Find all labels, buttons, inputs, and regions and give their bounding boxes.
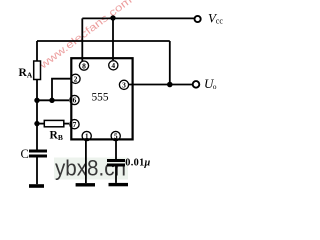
pin 2 bbox=[71, 74, 80, 83]
resistor RB bbox=[44, 120, 64, 126]
ground under pin1 bbox=[76, 183, 95, 186]
svg-text:1: 1 bbox=[85, 132, 89, 141]
svg-text:6: 6 bbox=[73, 96, 77, 105]
svg-text:5: 5 bbox=[114, 132, 118, 141]
capacitor C bbox=[29, 150, 47, 153]
svg-text:7: 7 bbox=[73, 120, 77, 129]
svg-text:0.01μ: 0.01μ bbox=[125, 158, 150, 169]
junction node6 left bbox=[34, 98, 39, 103]
pin 7 bbox=[70, 120, 79, 129]
resistor RA bbox=[34, 61, 41, 80]
wire node6 to node7 bbox=[36, 100, 38, 123]
op-amp U1 555 IC body bbox=[71, 58, 132, 139]
wire RA bottom to node6 bbox=[36, 80, 38, 101]
svg-text:2: 2 bbox=[74, 75, 78, 84]
wire bypass cap to ground bbox=[115, 167, 117, 183]
terminal Vcc bbox=[195, 16, 201, 22]
pin 5 bbox=[111, 131, 120, 140]
wire pin8 to rail bbox=[81, 18, 83, 61]
junction output node bbox=[167, 82, 173, 88]
capacitor 0.01u bbox=[107, 159, 125, 162]
junction rail-pin4 bbox=[110, 15, 115, 20]
wire pin3 to Uo terminal bbox=[128, 84, 193, 86]
wire pin2 L-link bbox=[52, 79, 70, 101]
pin 1 bbox=[82, 131, 91, 140]
wire C to ground bbox=[36, 158, 38, 185]
svg-text:4: 4 bbox=[111, 61, 115, 70]
terminal Uo bbox=[193, 81, 200, 88]
svg-text:555: 555 bbox=[92, 92, 109, 104]
svg-text:3: 3 bbox=[122, 81, 126, 90]
pin 8 bbox=[79, 61, 88, 70]
svg-text:C: C bbox=[21, 147, 29, 161]
wire Vcc rail bbox=[82, 17, 194, 19]
svg-text:8: 8 bbox=[82, 61, 86, 70]
wire node7 to capacitor C bbox=[36, 124, 38, 150]
wire pin1 to ground bbox=[85, 139, 87, 183]
wire node7 to RB bbox=[37, 123, 44, 125]
wire pin5 to bypass cap bbox=[115, 139, 117, 159]
svg-text:cc: cc bbox=[216, 17, 224, 26]
wire RB to pin7 bbox=[64, 123, 69, 125]
junction node6 mid bbox=[49, 98, 54, 103]
wire RA top to output column bbox=[37, 40, 170, 42]
wire RA column upper bbox=[36, 41, 38, 61]
wire pin6 row bbox=[37, 99, 69, 101]
ground under C bbox=[29, 184, 44, 188]
pin 4 bbox=[109, 61, 118, 70]
wire pin4 to rail bbox=[112, 18, 114, 60]
ground under bypass cap bbox=[109, 183, 129, 186]
wire output column vertical bbox=[169, 41, 171, 85]
pin 6 bbox=[70, 95, 79, 104]
pin 3 bbox=[119, 80, 128, 89]
ybx8.cn highlight box bbox=[54, 158, 128, 180]
junction node7 bbox=[34, 121, 39, 126]
svg-text:o: o bbox=[213, 82, 217, 91]
